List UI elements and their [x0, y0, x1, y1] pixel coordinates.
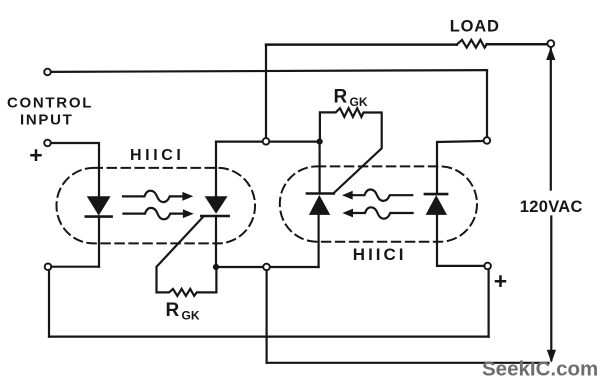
- wire 120VAC upper segment: [550, 47, 552, 189]
- LED D1: [87, 196, 111, 215]
- photon arrow U2 a: [352, 190, 412, 201]
- optocoupler U1 dashed outline: [57, 168, 256, 244]
- wire SCR1 anode: [215, 142, 217, 197]
- svg-text:GK: GK: [350, 95, 368, 109]
- svg-text:+: +: [494, 268, 507, 294]
- wire control minus to LED1: [51, 266, 99, 268]
- SCR Q1: [205, 196, 228, 214]
- node C (junction circle): [484, 137, 491, 144]
- wire cathode rail y267: [216, 266, 319, 268]
- wire node B drop: [266, 270, 268, 363]
- arrowhead down at AC return: [547, 350, 556, 363]
- SCR Q1 cathode bar: [201, 215, 228, 218]
- wire control plus to LED1 anode: [51, 143, 99, 197]
- photon arrow U1 b: [124, 208, 184, 219]
- node B (junction circle): [263, 264, 270, 271]
- wire main top rail left of LOAD: [266, 43, 457, 46]
- wire LED1 cathode down: [98, 217, 100, 267]
- junction dot at SCR1 cathode: [213, 264, 219, 270]
- wire SCR2 cathode: [319, 142, 321, 194]
- wire LOAD to terminal T5: [487, 43, 548, 46]
- wire SCR2 anode: [318, 215, 320, 267]
- wire right control drop to node C: [486, 70, 488, 137]
- wire SCR1 cathode: [215, 216, 217, 267]
- terminal T4 (AC plus): [484, 263, 491, 270]
- node A (junction circle): [263, 138, 270, 145]
- wire bottom outer rail: [49, 336, 489, 338]
- wire right outer riser: [488, 269, 490, 336]
- wire bottom AC return: [267, 362, 549, 364]
- wire 120VAC lower segment: [550, 217, 552, 361]
- arrowhead up at T5: [546, 47, 555, 60]
- photon arrow U2 b: [352, 207, 412, 218]
- wire anode rail y141: [216, 141, 322, 143]
- resistor LOAD: [457, 40, 487, 48]
- svg-text:120VAC: 120VAC: [520, 198, 583, 216]
- svg-text:CONTROL: CONTROL: [7, 95, 93, 112]
- SCR Q2: [309, 195, 330, 215]
- wire control top rail: [51, 70, 487, 72]
- wire LED2 anode rail: [437, 265, 484, 267]
- LED D2 cathode bar: [425, 193, 447, 196]
- wire top rail drop at x266: [265, 45, 267, 138]
- terminal T1 (control input top): [44, 69, 51, 76]
- optocoupler U2 dashed outline: [280, 166, 477, 241]
- svg-text:LOAD: LOAD: [450, 18, 500, 36]
- svg-text:GK: GK: [182, 309, 200, 323]
- SCR Q2 cathode bar: [307, 192, 334, 195]
- terminal T2 (control input plus): [44, 140, 51, 147]
- resistor RGK1 with leads (gate of SCR1): [157, 217, 217, 296]
- svg-text:INPUT: INPUT: [20, 111, 74, 128]
- svg-text:+: +: [29, 142, 42, 168]
- terminal T5 (top right): [547, 40, 554, 47]
- LED D1 cathode bar: [86, 215, 112, 218]
- svg-text:HIICI: HIICI: [130, 147, 184, 164]
- LED D2: [426, 195, 447, 215]
- svg-text:R: R: [334, 86, 348, 107]
- svg-text:R: R: [166, 300, 180, 321]
- photon arrow U1 a: [123, 191, 183, 202]
- resistor RGK2 with leads (gate of SCR2): [320, 108, 382, 193]
- terminal T3 (control input minus): [45, 264, 52, 271]
- svg-text:HIICI: HIICI: [353, 245, 407, 264]
- svg-text:SeekIC.com: SeekIC.com: [482, 357, 598, 380]
- wire node C to LED2 cathode: [437, 141, 484, 193]
- wire LED2 anode down: [436, 215, 438, 266]
- junction dot at SCR2 cathode: [317, 139, 323, 145]
- wire left outer drop: [48, 270, 50, 337]
